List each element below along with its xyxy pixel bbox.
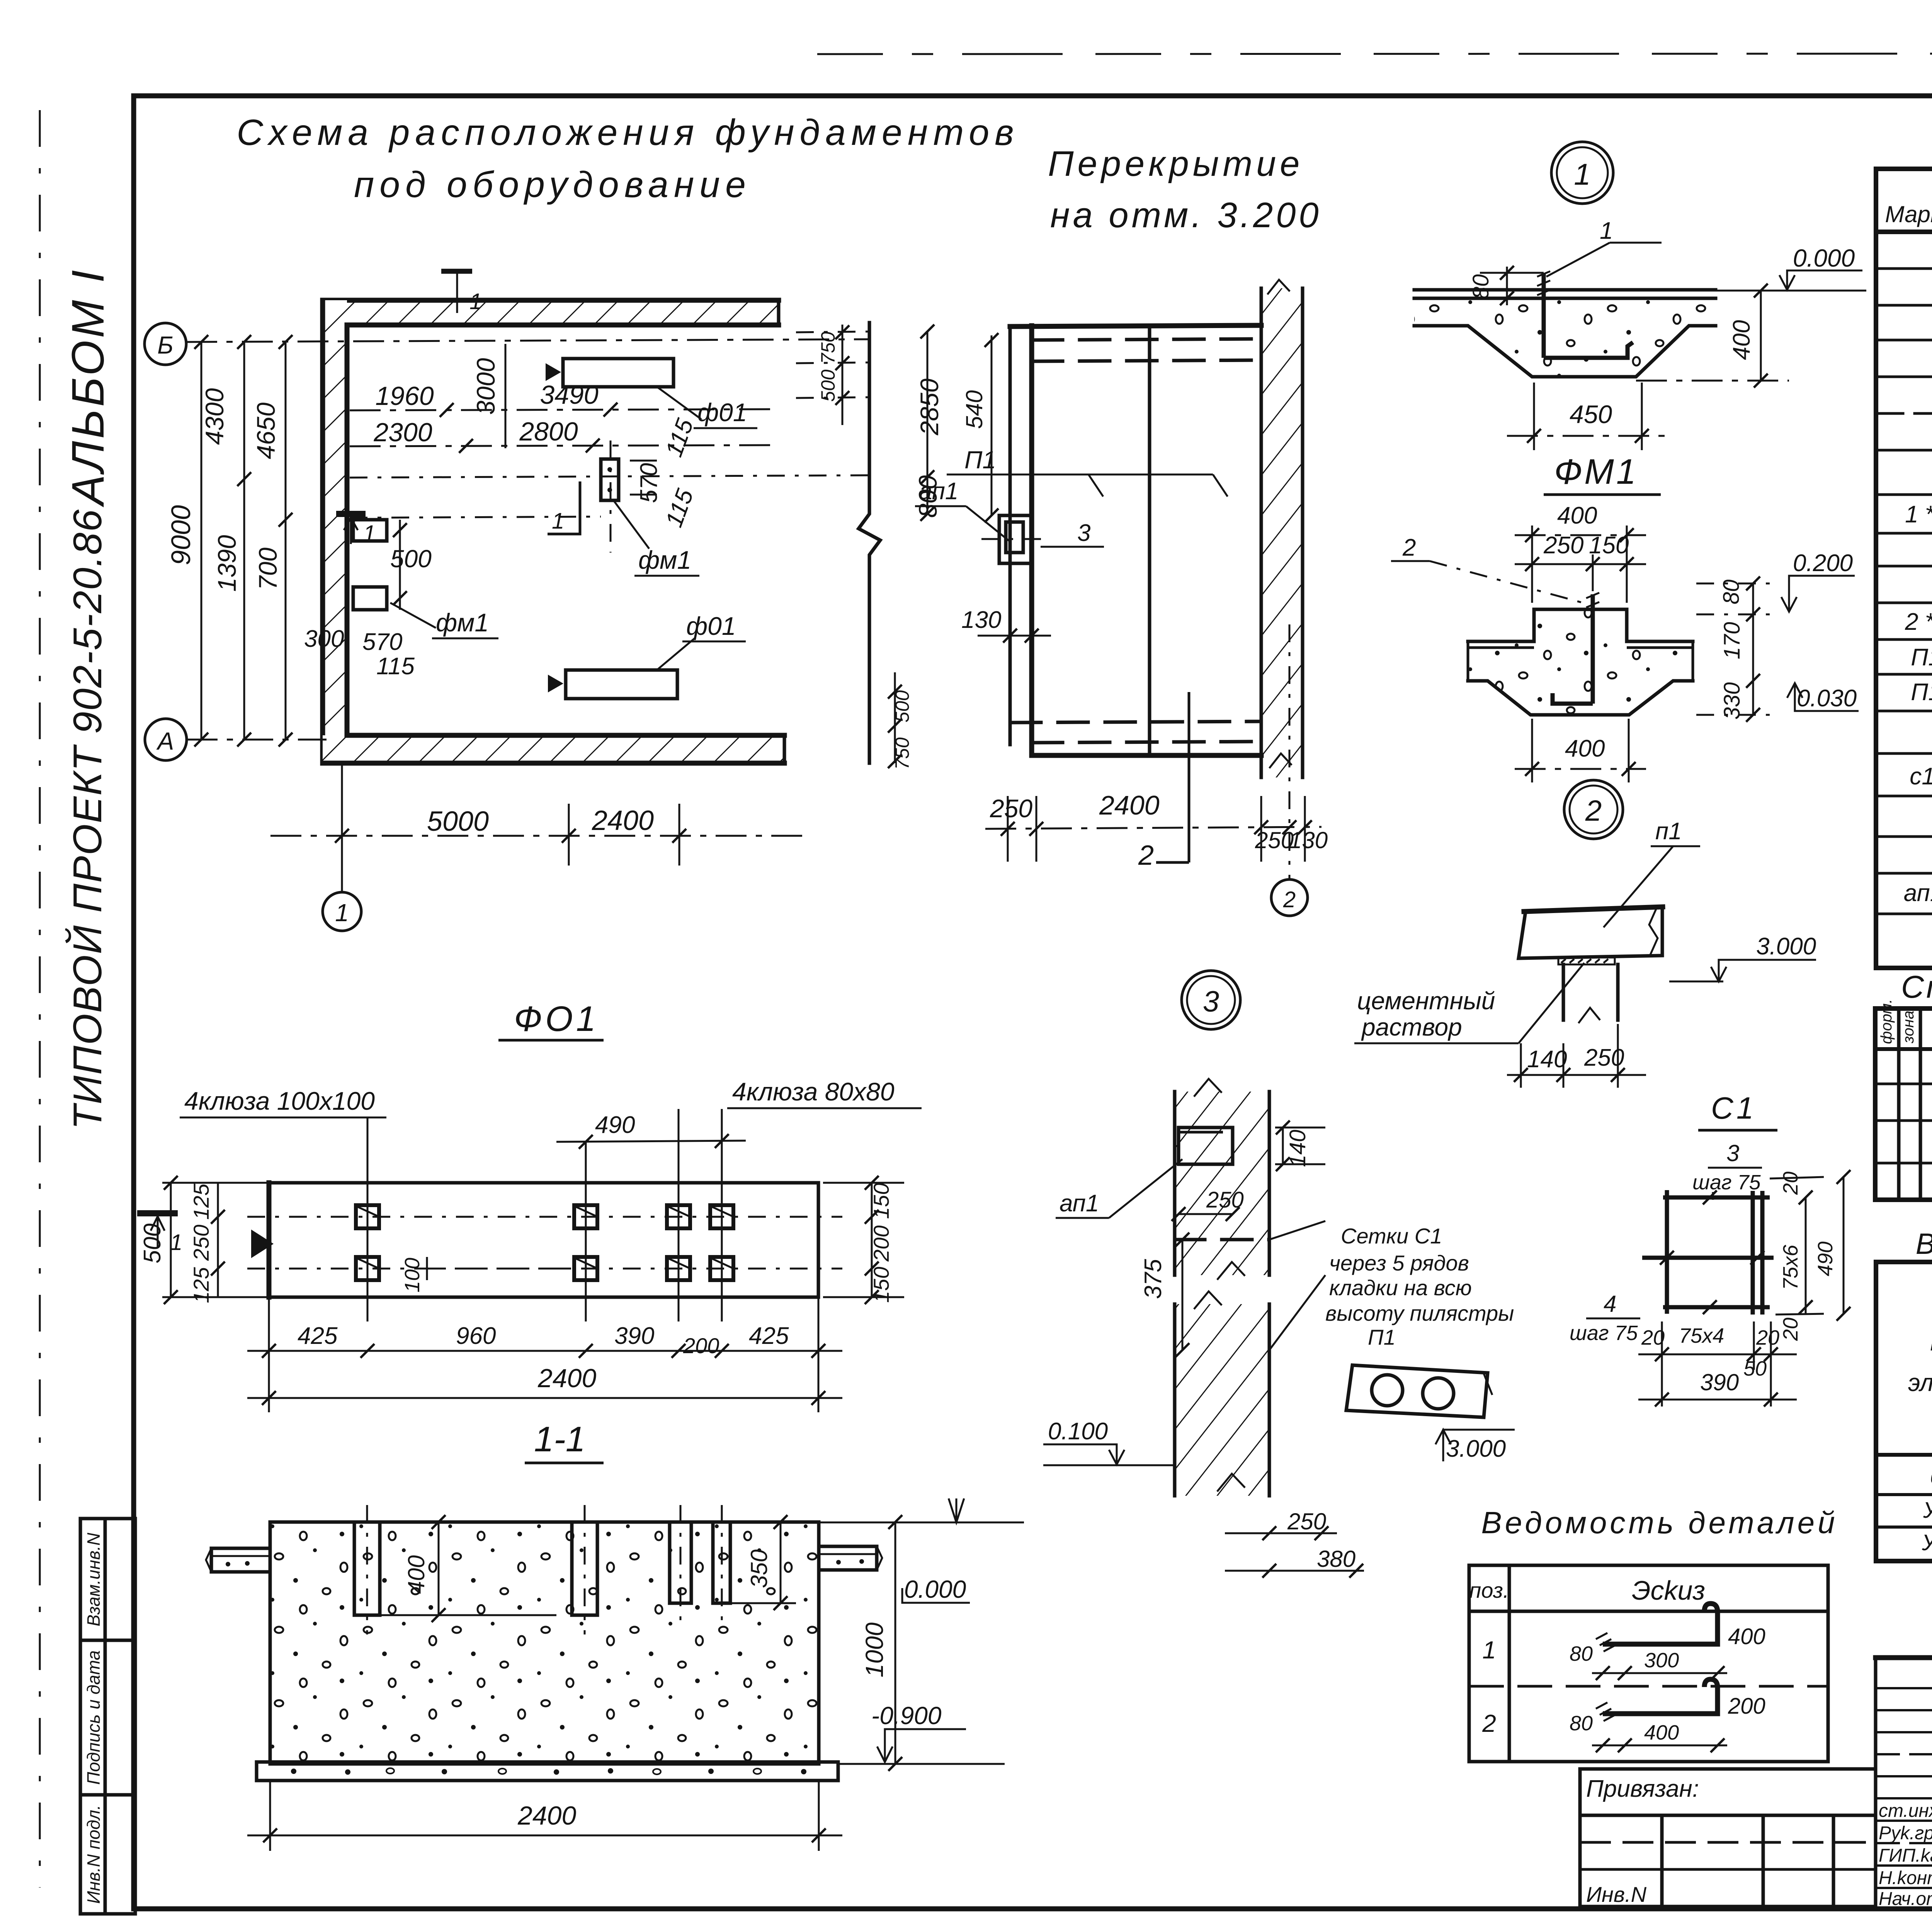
uzel1 floor double line (1414, 288, 1716, 292)
perek right wall hatched (1261, 288, 1303, 777)
uzel1 bottom bar with hook (1544, 342, 1633, 358)
svg-text:Сетки С1: Сетки С1 (1341, 1224, 1442, 1248)
svg-text:1: 1 (335, 899, 349, 927)
section 2 cut line (1188, 692, 1190, 862)
hollow core panel П1 in uzel3 (1346, 1365, 1488, 1417)
svg-text:Перекрытие: Перекрытие (1048, 144, 1303, 184)
svg-text:1 *: 1 * (1905, 501, 1932, 528)
svg-text:Подпись и дата: Подпись и дата (83, 1650, 104, 1785)
dim 100 small (426, 1257, 428, 1280)
axis circle 1 (323, 892, 361, 931)
dim 500 between left pilasters (399, 520, 401, 610)
table4 grid (1469, 1565, 1828, 1762)
svg-text:3: 3 (1726, 1140, 1739, 1166)
svg-text:высоту пилястры: высоту пилястры (1325, 1301, 1514, 1325)
svg-text:1: 1 (170, 1230, 182, 1255)
svg-text:через 5 рядов: через 5 рядов (1329, 1251, 1469, 1275)
svg-text:фм1: фм1 (436, 608, 489, 637)
pilaster ФМ1 on left wall upper (353, 520, 387, 541)
bedding slab under block (257, 1762, 838, 1781)
svg-text:150: 150 (869, 1183, 893, 1219)
svg-text:шаг 75: шаг 75 (1570, 1321, 1638, 1345)
svg-text:500: 500 (139, 1223, 166, 1263)
pilaster ФМ1 on left wall lower (353, 587, 387, 610)
hidden edge dashed bottom (1011, 721, 1261, 723)
svg-text:0.200: 0.200 (1793, 550, 1853, 577)
staff block grid (1876, 1658, 1932, 1909)
pocket 4 (713, 1522, 730, 1603)
svg-text:2: 2 (1283, 887, 1296, 912)
uzel2 right dims 80 170 330 (1752, 583, 1754, 715)
svg-text:1390: 1390 (213, 535, 241, 592)
svg-text:4300: 4300 (200, 388, 229, 445)
svg-text:5000: 5000 (427, 806, 489, 837)
svg-text:1: 1 (1600, 218, 1613, 244)
pocket 2 (572, 1522, 597, 1615)
svg-text:3.000: 3.000 (1446, 1435, 1506, 1462)
svg-text:Эckuз: Эckuз (1632, 1575, 1705, 1605)
svg-text:380: 380 (1317, 1546, 1355, 1572)
svg-text:фм1: фм1 (638, 546, 691, 574)
right dim 2850/800 (927, 332, 929, 514)
dim 570 rotated middle (630, 460, 657, 462)
svg-text:80: 80 (1570, 1712, 1593, 1735)
fo1 plate outline (269, 1183, 818, 1297)
svg-text:2400: 2400 (517, 1801, 576, 1830)
svg-text:200: 200 (1728, 1694, 1765, 1719)
svg-text:Привязан:: Привязан: (1586, 1776, 1699, 1802)
svg-text:ап1: ап1 (1060, 1190, 1099, 1217)
svg-text:Марка: Марка (1930, 1328, 1932, 1356)
dim 1000 height (895, 1522, 896, 1764)
svg-text:250: 250 (189, 1225, 213, 1261)
perek bottom dims 250 2400 250 130 (985, 827, 1321, 829)
table2 grid (1875, 1009, 1932, 1200)
svg-text:1: 1 (363, 521, 376, 546)
svg-text:250: 250 (1543, 532, 1583, 559)
plan left wall hatched (323, 300, 347, 763)
table3 grid (1876, 1262, 1932, 1561)
svg-text:540: 540 (961, 390, 987, 429)
svg-text:Взам.инв.N: Взам.инв.N (83, 1532, 104, 1626)
plan top wall hatched (323, 300, 779, 325)
svg-text:140: 140 (1285, 1130, 1310, 1167)
svg-text:цементный: цементный (1357, 987, 1495, 1015)
svg-text:Инв.N: Инв.N (1586, 1882, 1647, 1906)
ОП1 pocket in pilaster (1179, 1128, 1233, 1164)
section 1-1 concrete block (270, 1522, 819, 1764)
svg-text:0.100: 0.100 (1048, 1418, 1108, 1445)
svg-text:4клюза 100x100: 4клюза 100x100 (184, 1087, 375, 1115)
svg-text:Нач.отд.: Нач.отд. (1879, 1889, 1932, 1909)
node circle 2 double (1564, 780, 1623, 839)
svg-text:400: 400 (1565, 735, 1605, 762)
svg-text:150: 150 (869, 1267, 893, 1303)
svg-text:350: 350 (746, 1549, 772, 1588)
section 1 mark top (441, 269, 472, 274)
svg-text:1000: 1000 (861, 1622, 888, 1677)
svg-text:4650: 4650 (252, 402, 280, 459)
svg-text:2300: 2300 (373, 418, 432, 447)
svg-text:250: 250 (1287, 1509, 1326, 1534)
svg-text:80: 80 (1570, 1642, 1593, 1665)
left margin stamp boxes (80, 1519, 135, 1914)
C1 mesh bars (1665, 1190, 1669, 1314)
svg-text:125: 125 (189, 1267, 213, 1303)
svg-text:ФМ1: ФМ1 (1554, 452, 1638, 492)
svg-text:450: 450 (1570, 400, 1612, 429)
svg-text:П1: П1 (1911, 644, 1932, 671)
section mark 1 left of plate (137, 1210, 178, 1216)
svg-text:400: 400 (1644, 1721, 1679, 1744)
uzel2 slab double lines (1468, 640, 1534, 643)
bottom dim line 5000 2400 (270, 835, 811, 837)
svg-text:1: 1 (552, 509, 564, 534)
svg-text:1: 1 (1482, 1636, 1496, 1664)
uzel2 T concrete body (1468, 609, 1693, 715)
fo1 total dim 2400 (247, 1397, 842, 1399)
axis 1 line (341, 763, 343, 892)
svg-text:ТИПОВОЙ ПРОЕКТ 902-5-20.86: ТИПОВОЙ ПРОЕКТ 902-5-20.86 (65, 509, 110, 1129)
uzel1 concrete body (1414, 298, 1716, 377)
uzel3 bottom dims 250 380 (1225, 1532, 1337, 1534)
plan right break line (859, 323, 880, 763)
axis circle 2 of perek (1271, 879, 1308, 916)
svg-text:130: 130 (961, 607, 1001, 633)
fo1 triangle mark (251, 1230, 274, 1258)
C1 right dims 20 75x6 490 20 (1805, 1197, 1807, 1315)
axis circle Б (145, 323, 186, 365)
svg-text:2400: 2400 (1099, 790, 1160, 820)
svg-text:250: 250 (1255, 827, 1294, 853)
middle pilaster axis vertical (610, 440, 612, 553)
svg-text:125: 125 (189, 1183, 213, 1219)
svg-text:75x4: 75x4 (1679, 1324, 1724, 1347)
left dim line 4300/1390 (243, 342, 245, 740)
svg-text:20: 20 (1779, 1172, 1802, 1195)
uzel2 stem outline (1534, 609, 1627, 641)
bearing pad ОП1 in slab edge (999, 515, 1032, 563)
dim 400 uzel1 (1760, 291, 1762, 381)
svg-text:50: 50 (1743, 1357, 1767, 1380)
dim 400 pocket depth (438, 1522, 440, 1615)
svg-text:700: 700 (253, 548, 282, 590)
svg-text:75x6: 75x6 (1779, 1244, 1802, 1290)
svg-text:0.000: 0.000 (1793, 244, 1855, 272)
svg-text:ап1: ап1 (919, 478, 958, 505)
svg-text:зона: зона (1900, 1010, 1917, 1044)
svg-text:1: 1 (1574, 157, 1590, 191)
svg-text:фм1: фм1 (1930, 1463, 1932, 1489)
slab panel joint (1148, 326, 1151, 755)
svg-text:поз.: поз. (1469, 1578, 1509, 1602)
svg-text:ФО1: ФО1 (514, 999, 599, 1039)
svg-text:2: 2 (1585, 794, 1602, 827)
stamp top line (1876, 1655, 1932, 1660)
fo1 right dims 150 200 150 (871, 1183, 873, 1297)
top broken trim line (817, 53, 1932, 54)
svg-text:П1: П1 (1911, 679, 1932, 706)
foundation Ф01 top rect (563, 359, 673, 387)
section 1 L mark near pilaster (548, 481, 580, 534)
svg-text:490: 490 (1814, 1242, 1837, 1276)
svg-text:3: 3 (1077, 520, 1090, 546)
column under pad (1562, 964, 1565, 1020)
svg-text:500: 500 (891, 690, 913, 723)
svg-text:20: 20 (1779, 1318, 1802, 1341)
svg-text:3000: 3000 (471, 358, 500, 415)
svg-text:П1: П1 (1368, 1325, 1396, 1349)
klyuz centerlines (247, 1216, 842, 1218)
svg-text:3.000: 3.000 (1756, 933, 1816, 960)
svg-text:Спецификация на изделие: Спецификация на изделие (1901, 969, 1932, 1005)
leader фм1 left (390, 603, 436, 628)
svg-text:490: 490 (595, 1112, 635, 1138)
pocket 1 (354, 1522, 380, 1615)
svg-text:ст.инж.: ст.инж. (1879, 1801, 1932, 1821)
svg-text:140: 140 (1527, 1046, 1567, 1073)
svg-text:500: 500 (817, 369, 839, 402)
svg-text:1: 1 (469, 289, 482, 314)
left dim line 9000 (201, 342, 202, 740)
svg-text:170: 170 (1719, 622, 1745, 660)
svg-text:80: 80 (1468, 274, 1493, 299)
svg-text:9000: 9000 (166, 505, 196, 565)
right dim pair 750/500 top (842, 325, 844, 425)
svg-text:с1: с1 (1910, 763, 1932, 790)
svg-text:300: 300 (304, 626, 344, 652)
dim 80 uzel1 (1506, 267, 1508, 305)
svg-text:150: 150 (1589, 532, 1629, 559)
svg-text:А: А (156, 727, 174, 755)
svg-text:115: 115 (376, 653, 415, 680)
svg-text:2850: 2850 (915, 378, 944, 435)
svg-text:100: 100 (401, 1258, 424, 1293)
hidden edge dashed top (1032, 339, 1261, 340)
svg-text:3: 3 (1203, 985, 1219, 1018)
dim 3000 vertical (505, 344, 507, 448)
svg-text:330: 330 (1719, 682, 1745, 720)
node circle 3 double (1182, 971, 1240, 1029)
svg-text:1960: 1960 (375, 381, 434, 411)
dim 350 pocket depth right (780, 1522, 782, 1603)
section 1 mark lower (336, 511, 366, 517)
svg-text:2400: 2400 (592, 805, 654, 836)
svg-text:375: 375 (1140, 1259, 1167, 1299)
svg-text:2400: 2400 (537, 1364, 596, 1393)
svg-text:Узел N1: Узел N1 (1923, 1498, 1932, 1523)
svg-text:Ведомость расхода стали на: Ведомость расхода стали на элемент, kг. (1916, 1228, 1932, 1260)
table1 grid (1876, 169, 1932, 968)
svg-text:Б: Б (157, 331, 173, 359)
svg-text:2: 2 (1402, 534, 1416, 561)
svg-text:400: 400 (1728, 1624, 1765, 1649)
uzel3 pilaster upper part hatched (1175, 1092, 1269, 1275)
svg-text:390: 390 (1700, 1369, 1739, 1395)
svg-text:С1: С1 (1711, 1091, 1757, 1125)
svg-text:0.030: 0.030 (1797, 685, 1857, 712)
svg-text:раствор: раствор (1361, 1013, 1462, 1041)
svg-text:кладки на всю: кладки на всю (1329, 1276, 1472, 1300)
svg-text:на отм. 3.200: на отм. 3.200 (1050, 196, 1322, 235)
left protruding console (211, 1548, 270, 1572)
svg-text:200: 200 (869, 1225, 893, 1262)
svg-text:500: 500 (390, 545, 432, 573)
svg-text:Н.kонтр: Н.kонтр (1879, 1868, 1932, 1888)
svg-text:750: 750 (891, 737, 913, 770)
uzel3 dashed mesh lines (1175, 1238, 1269, 1242)
P1 bearing node: panel (1519, 907, 1662, 958)
svg-text:400: 400 (403, 1555, 429, 1594)
svg-text:130: 130 (1289, 827, 1328, 853)
svg-text:ф01: ф01 (697, 398, 747, 427)
right protruding console (819, 1546, 877, 1570)
svg-text:20: 20 (1756, 1326, 1779, 1349)
svg-text:80: 80 (1719, 580, 1744, 605)
pocket 3 (670, 1522, 691, 1603)
svg-text:Ведомость деталей: Ведомость деталей (1481, 1505, 1838, 1540)
plan bottom wall hatched (323, 735, 784, 763)
svg-text:0.000: 0.000 (904, 1575, 966, 1603)
dim 140 right of pilaster (1282, 1128, 1284, 1164)
svg-text:425: 425 (298, 1323, 338, 1349)
right dim pair 500/750 bottom (894, 672, 896, 763)
svg-text:под оборудование: под оборудование (354, 164, 751, 205)
svg-text:шаг 75: шаг 75 (1692, 1171, 1761, 1194)
svg-text:425: 425 (749, 1323, 789, 1349)
fo1 bottom dim chain 425 960 390 200 425 (247, 1350, 842, 1352)
svg-text:3490: 3490 (540, 380, 598, 410)
svg-text:-0.900: -0.900 (871, 1702, 942, 1730)
slab top edge (1010, 325, 1261, 327)
svg-text:750: 750 (817, 332, 839, 364)
dim 540 (991, 335, 993, 515)
svg-text:4клюза 80x80: 4клюза 80x80 (732, 1077, 895, 1106)
foundation Ф01 bottom rect (566, 670, 677, 699)
svg-text:Инв.N подл.: Инв.N подл. (83, 1805, 104, 1904)
svg-text:400: 400 (1728, 320, 1755, 360)
dim 450 uzel1 (1507, 435, 1669, 437)
svg-text:200: 200 (683, 1333, 719, 1358)
svg-text:элемента: элемента (1908, 1369, 1932, 1396)
svg-text:ГИП.kан: ГИП.kан (1879, 1845, 1932, 1866)
privyazan box (1580, 1769, 1876, 1906)
pilaster ФМ1 middle upper (601, 459, 619, 500)
svg-text:390: 390 (614, 1323, 654, 1349)
dim 375 (1182, 1240, 1184, 1350)
uzel3 pilaster lower part hatched (1175, 1304, 1269, 1496)
svg-text:570: 570 (636, 463, 662, 503)
axis circle А (145, 719, 187, 760)
svg-text:250: 250 (990, 794, 1032, 823)
svg-text:400: 400 (1557, 502, 1597, 529)
interior dim line 1960/3490 (350, 409, 777, 410)
svg-text:570: 570 (362, 629, 402, 655)
svg-text:4: 4 (1604, 1291, 1616, 1317)
leader фм1 middle (614, 502, 649, 549)
interior dim line 2300/2800 (350, 445, 777, 446)
axis line Б (186, 339, 869, 342)
svg-text:2 *: 2 * (1905, 609, 1932, 635)
svg-text:Узел N3.: Узел N3. (1922, 1530, 1932, 1555)
svg-text:2: 2 (1482, 1709, 1496, 1737)
svg-text:Марка: Марка (1885, 201, 1932, 227)
uzel2 anchor bolt (1591, 594, 1595, 704)
svg-text:2: 2 (1138, 840, 1154, 871)
slab left double edge (1009, 327, 1012, 745)
svg-text:2800: 2800 (519, 417, 578, 446)
svg-text:Руk.гр.: Руk.гр. (1879, 1823, 1932, 1844)
left dash-dot page edge line (39, 110, 41, 1888)
uzel2 lower outline (1468, 681, 1693, 715)
svg-text:960: 960 (456, 1323, 496, 1349)
svg-text:п1: п1 (1655, 818, 1682, 845)
svg-text:300: 300 (1644, 1649, 1679, 1672)
node circle 1 double (1551, 142, 1613, 204)
slab bottom edge (1032, 753, 1261, 758)
left dim line 4650/700 (285, 342, 287, 740)
svg-text:1-1: 1-1 (534, 1420, 585, 1459)
axis line А (187, 739, 327, 741)
cement pad (1558, 957, 1615, 964)
svg-text:ф01: ф01 (686, 612, 736, 640)
fo1 left dims 500 / 125 250 125 (170, 1183, 172, 1297)
svg-text:форм.: форм. (1878, 999, 1895, 1044)
dim 2400 bottom of section (247, 1835, 842, 1837)
svg-text:ап1: ап1 (1904, 880, 1932, 906)
svg-text:АЛЬБОМ I: АЛЬБОМ I (63, 268, 114, 507)
callout 1 leader (1546, 243, 1610, 277)
uzel2 dim 400 bottom (1515, 768, 1646, 770)
axis through middle pilasters horizontal (350, 475, 869, 478)
klyuz squares row1 (356, 1205, 733, 1280)
svg-text:Схема расположения фундамент: Схема расположения фундаментов (236, 112, 1019, 153)
uzel1 anchor bolt (1542, 273, 1546, 358)
